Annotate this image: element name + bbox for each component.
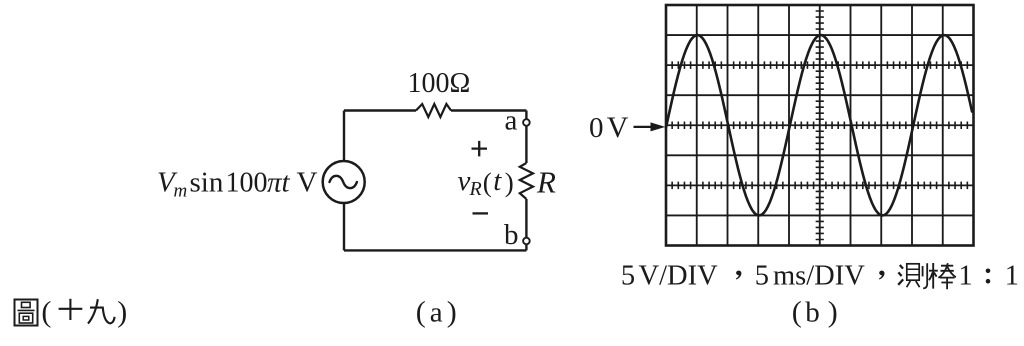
- svg-text:b: b: [504, 219, 519, 251]
- svg-text:5: 5: [755, 260, 769, 291]
- svg-text:): ): [447, 295, 457, 328]
- svg-text:R: R: [469, 178, 482, 200]
- svg-text:): ): [828, 296, 838, 329]
- svg-text:a: a: [505, 105, 518, 137]
- svg-text:a: a: [430, 296, 443, 328]
- svg-text:b: b: [805, 297, 820, 329]
- svg-text:100Ω: 100Ω: [408, 68, 471, 99]
- svg-text:100: 100: [226, 167, 268, 198]
- svg-text:1: 1: [1005, 260, 1019, 291]
- svg-text:πt: πt: [267, 166, 291, 198]
- svg-text:5: 5: [621, 260, 635, 291]
- svg-text:(: (: [41, 295, 51, 328]
- svg-text:ms/DIV: ms/DIV: [773, 260, 865, 291]
- svg-text:(: (: [483, 168, 492, 198]
- svg-text:(: (: [416, 295, 426, 328]
- svg-text:t: t: [493, 165, 502, 197]
- svg-text:): ): [117, 295, 127, 328]
- svg-text:): ): [505, 168, 514, 198]
- svg-text:(: (: [792, 296, 802, 329]
- svg-text:1: 1: [958, 260, 972, 291]
- svg-text:V: V: [297, 166, 318, 198]
- svg-text:R: R: [536, 164, 556, 199]
- svg-text:V/DIV: V/DIV: [639, 260, 719, 291]
- svg-text:V: V: [607, 111, 629, 144]
- svg-text:m: m: [174, 181, 188, 202]
- svg-text:sin: sin: [190, 166, 224, 198]
- svg-text:0: 0: [589, 112, 604, 144]
